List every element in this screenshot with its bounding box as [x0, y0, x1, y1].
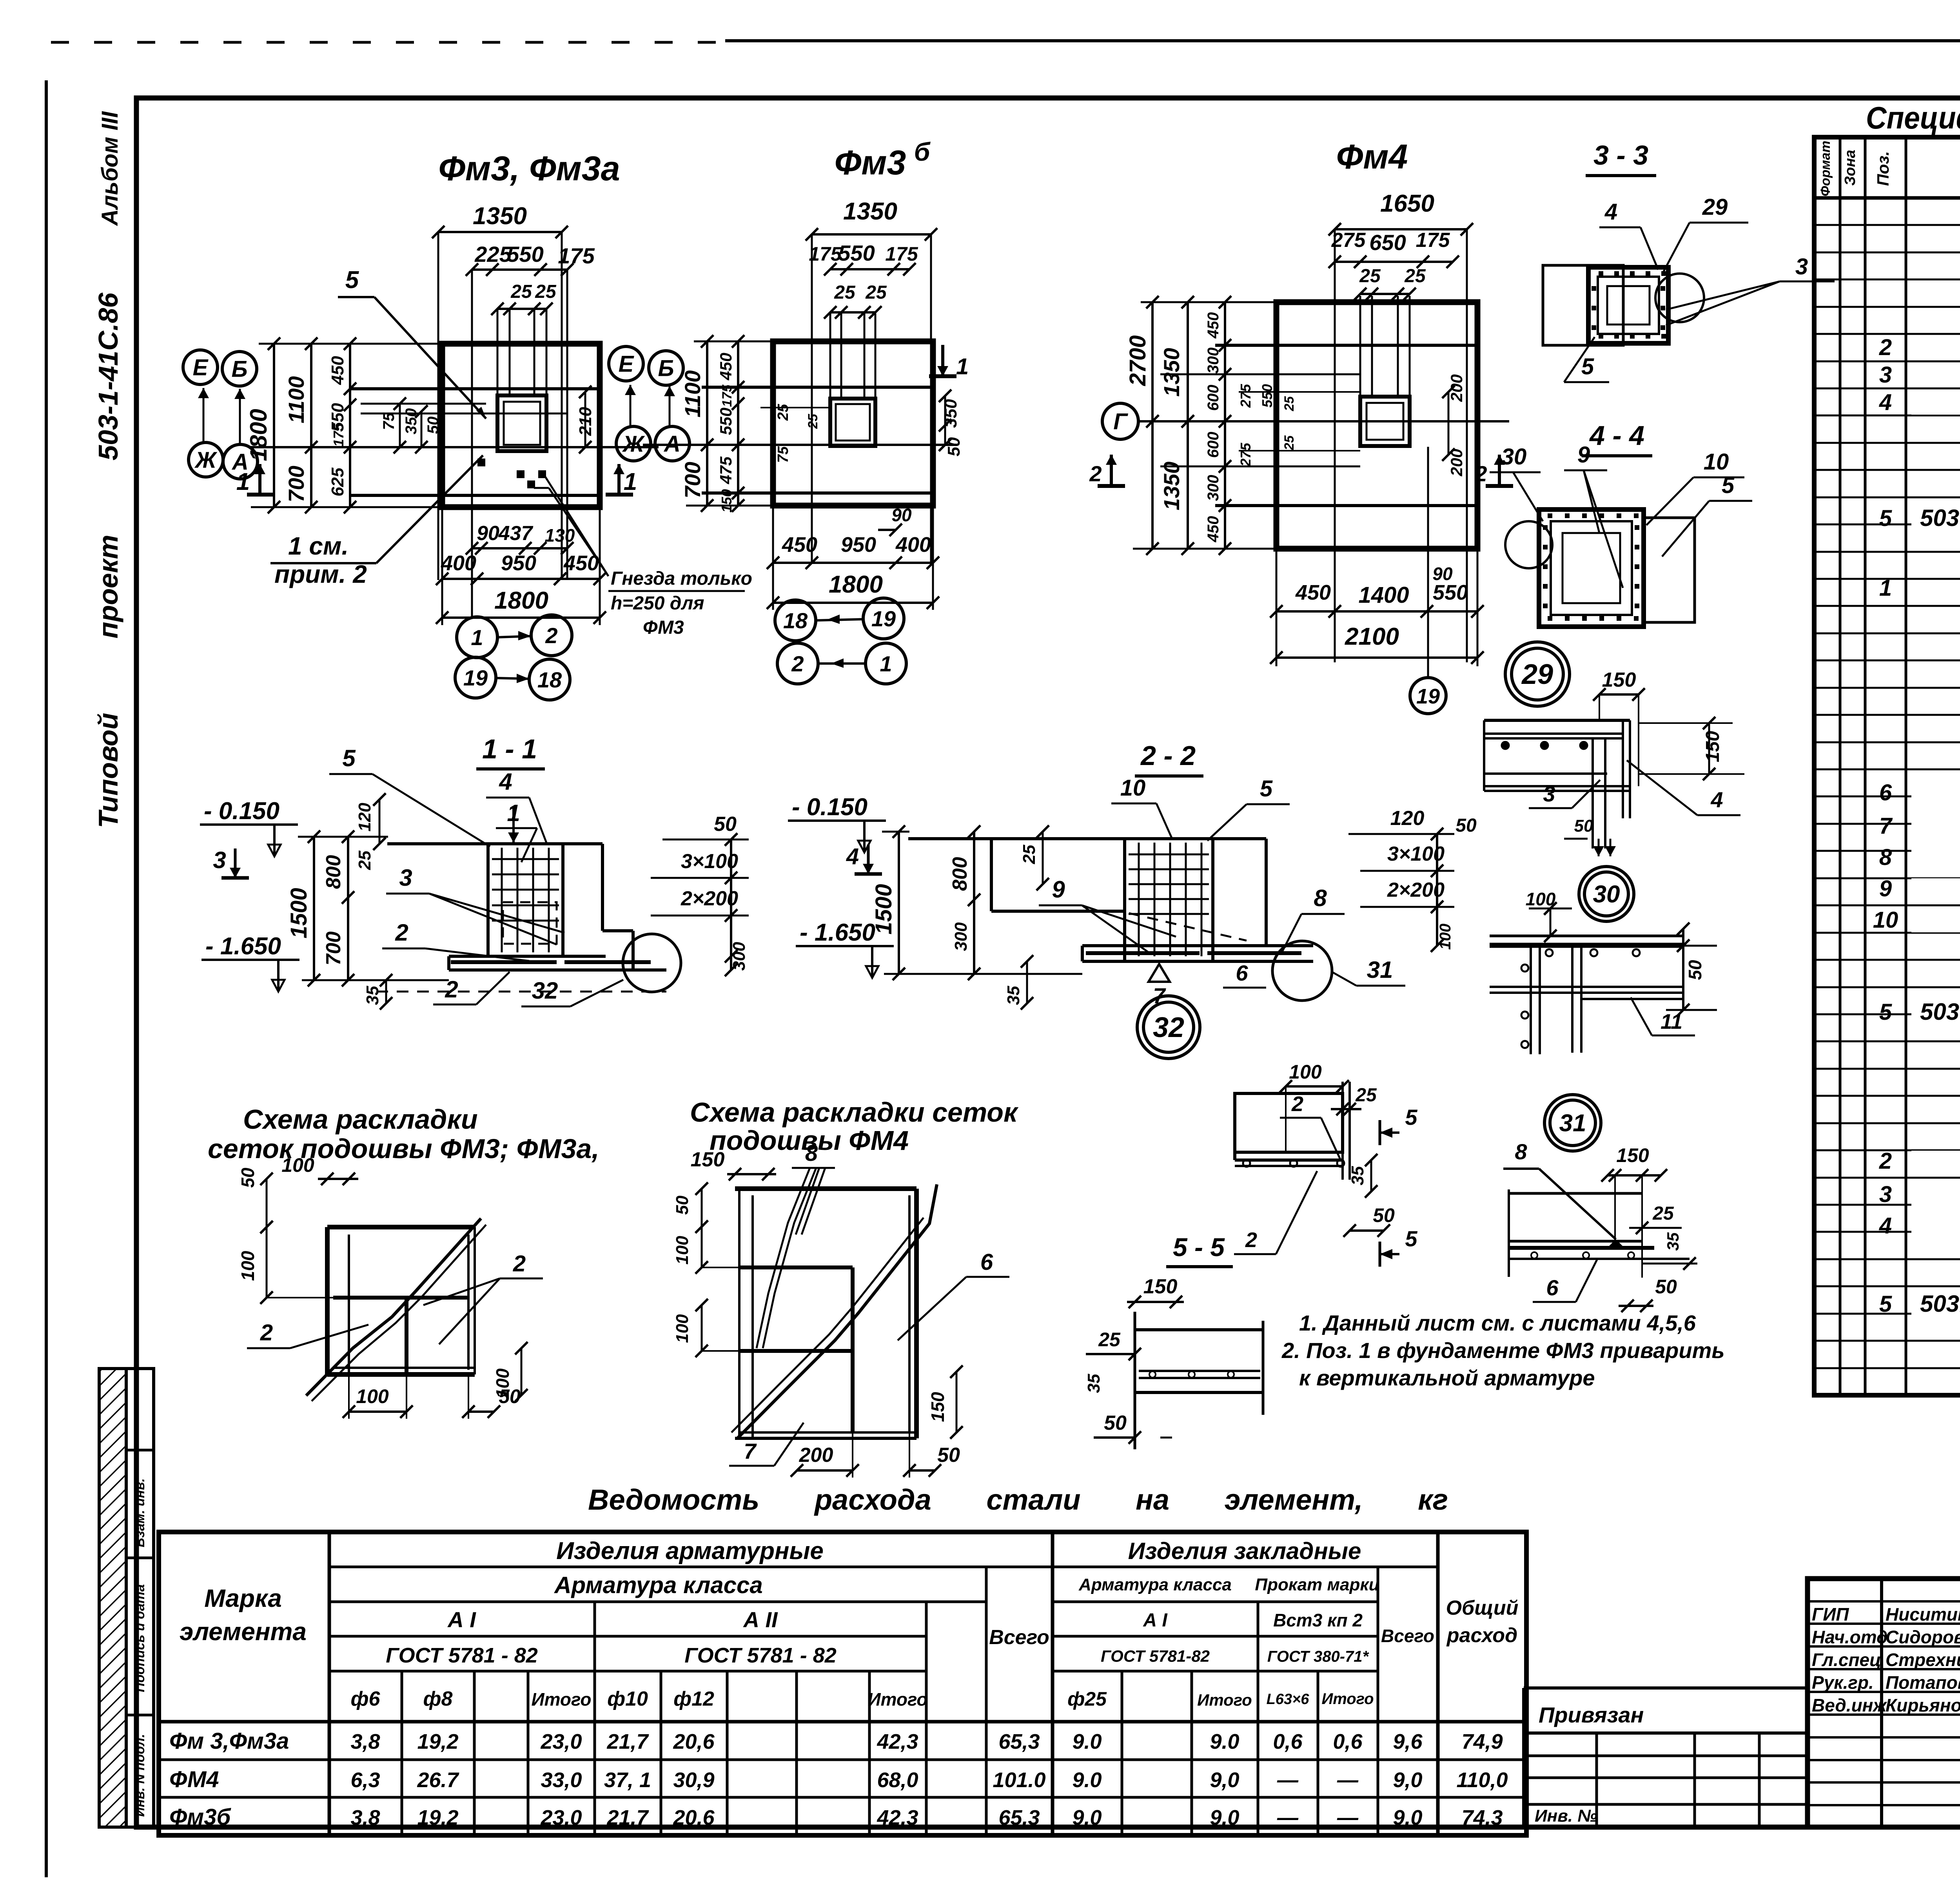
svg-text:1500: 1500: [286, 888, 312, 938]
svg-text:550: 550: [838, 241, 875, 265]
svg-text:1: 1: [624, 468, 637, 495]
svg-text:950: 950: [841, 533, 876, 557]
svg-text:L63×6: L63×6: [1267, 1691, 1310, 1708]
svg-text:Е: Е: [193, 355, 209, 380]
svg-text:25: 25: [1020, 845, 1039, 864]
svg-text:4: 4: [1710, 787, 1723, 812]
svg-text:6: 6: [980, 1249, 993, 1275]
plan FM3 axis line A: [251, 446, 659, 448]
svg-text:Гл.спец: Гл.спец: [1812, 1650, 1881, 1670]
plan FM3 cavity: [497, 395, 546, 451]
svg-text:ф8: ф8: [423, 1688, 453, 1710]
svg-text:ГОСТ 380-71*: ГОСТ 380-71*: [1267, 1648, 1370, 1665]
svg-text:8: 8: [805, 1140, 818, 1166]
svg-text:Ниситин: Ниситин: [1886, 1604, 1960, 1624]
plan FM3 section marks 1: [247, 493, 274, 497]
svg-text:Г: Г: [1113, 409, 1128, 434]
svg-text:5: 5: [342, 745, 356, 771]
svg-text:ГОСТ 5781-82: ГОСТ 5781-82: [1101, 1647, 1210, 1665]
svg-text:8: 8: [1515, 1139, 1527, 1164]
svg-text:30: 30: [1501, 444, 1527, 470]
svg-text:150: 150: [719, 489, 735, 513]
svg-text:- 0.150: - 0.150: [204, 798, 279, 825]
svg-text:150: 150: [1702, 731, 1723, 762]
title block frame: [1808, 1579, 1960, 1827]
detail 32 drawing: [1235, 1093, 1343, 1152]
svg-text:- 1.650: - 1.650: [800, 919, 875, 946]
svg-text:200: 200: [799, 1444, 833, 1467]
svg-text:150: 150: [1616, 1144, 1649, 1166]
plan FM4 axis line G: [1137, 420, 1509, 422]
top dashed trim line: [51, 41, 69, 44]
svg-text:1800: 1800: [829, 571, 883, 598]
svg-text:ф6: ф6: [351, 1688, 381, 1710]
svg-text:100: 100: [356, 1385, 389, 1407]
svg-text:25: 25: [1359, 266, 1381, 286]
svg-text:10: 10: [1704, 449, 1729, 475]
svg-text:Потапова: Потапова: [1886, 1672, 1960, 1693]
svg-text:800: 800: [322, 855, 345, 889]
mesh layout FM4 drawing: [735, 1186, 916, 1191]
small grid below privyazan: [1524, 1755, 1808, 1757]
svg-text:5 - 5: 5 - 5: [1173, 1233, 1225, 1262]
svg-text:19.2: 19.2: [417, 1806, 458, 1829]
svg-text:1800: 1800: [245, 409, 272, 461]
svg-text:Кирьянова: Кирьянова: [1886, 1695, 1960, 1715]
svg-text:625: 625: [328, 468, 347, 497]
svg-text:2: 2: [791, 651, 804, 676]
svg-text:5: 5: [1879, 506, 1892, 531]
svg-text:32: 32: [1153, 1012, 1184, 1043]
svg-text:75: 75: [775, 446, 791, 463]
svg-text:19: 19: [871, 606, 896, 631]
svg-text:26.7: 26.7: [417, 1768, 459, 1792]
svg-text:Общий: Общий: [1446, 1597, 1519, 1619]
svg-text:Подпись и дата: Подпись и дата: [132, 1584, 147, 1692]
svg-text:4: 4: [846, 844, 859, 869]
plan FM3 bottom leader circles: [457, 617, 497, 658]
svg-text:25: 25: [1282, 396, 1297, 412]
svg-text:Фм3б: Фм3б: [169, 1804, 231, 1830]
svg-text:25: 25: [535, 281, 557, 302]
svg-text:503.: 503.: [1920, 1291, 1960, 1317]
svg-text:20,6: 20,6: [673, 1806, 715, 1829]
svg-text:275: 275: [1238, 442, 1254, 467]
section 2-2 body: [908, 837, 1266, 840]
svg-text:30: 30: [1593, 881, 1620, 908]
spec table grid: [1814, 137, 1960, 1395]
svg-text:6: 6: [1546, 1275, 1559, 1300]
svg-text:2: 2: [1291, 1092, 1303, 1116]
svg-text:9: 9: [1577, 442, 1590, 468]
svg-text:600: 600: [1205, 385, 1222, 411]
section 5-5 drawing: [1134, 1312, 1136, 1449]
svg-text:ф25: ф25: [1067, 1688, 1107, 1710]
svg-text:450: 450: [1205, 312, 1222, 339]
svg-text:29: 29: [1702, 194, 1728, 220]
plan FM3 left dims: [273, 344, 275, 507]
sheet trim line left: [45, 80, 48, 1877]
plan FM3 outline: [442, 344, 600, 507]
svg-text:10: 10: [1873, 907, 1898, 933]
svg-text:1. Данный лист см. с листами 4: 1. Данный лист см. с листами 4,5,6: [1299, 1311, 1696, 1335]
svg-text:450: 450: [1205, 516, 1222, 543]
left stamp bar boxes: [126, 1369, 154, 1827]
svg-text:200: 200: [1447, 374, 1466, 402]
svg-text:65,3: 65,3: [998, 1806, 1040, 1829]
svg-text:4: 4: [499, 769, 512, 795]
svg-text:50: 50: [499, 1385, 521, 1407]
svg-text:175: 175: [1416, 229, 1450, 252]
svg-text:120: 120: [1390, 807, 1425, 830]
svg-text:расход: расход: [1446, 1624, 1517, 1647]
svg-text:35: 35: [1348, 1166, 1367, 1185]
svg-text:31: 31: [1559, 1110, 1586, 1137]
svg-text:300: 300: [1205, 348, 1222, 374]
svg-text:50: 50: [937, 1444, 960, 1467]
svg-text:5: 5: [1879, 999, 1892, 1025]
plan FM3b left dims: [706, 341, 708, 506]
svg-text:50: 50: [1574, 816, 1593, 836]
svg-text:ф10: ф10: [607, 1688, 648, 1710]
svg-text:30,9: 30,9: [673, 1768, 714, 1792]
svg-text:31: 31: [1367, 957, 1393, 983]
svg-text:8: 8: [1314, 885, 1327, 911]
svg-text:Фм3: Фм3: [835, 143, 906, 182]
svg-text:74,3: 74,3: [1461, 1806, 1503, 1829]
svg-text:9,6: 9,6: [1393, 1730, 1423, 1753]
plan FM3b leader circles: [775, 600, 816, 641]
svg-text:Итого: Итого: [532, 1689, 592, 1710]
svg-text:Арматура класса: Арматура класса: [1078, 1575, 1232, 1594]
svg-text:ГИП: ГИП: [1812, 1604, 1849, 1624]
svg-text:65,3: 65,3: [998, 1730, 1040, 1753]
svg-text:50: 50: [238, 1168, 258, 1188]
svg-text:1100: 1100: [284, 376, 309, 423]
svg-text:42,3: 42,3: [877, 1730, 918, 1753]
svg-text:37, 1: 37, 1: [604, 1768, 651, 1792]
svg-text:6,3: 6,3: [350, 1768, 380, 1792]
svg-text:175: 175: [885, 243, 918, 265]
svg-text:25: 25: [1282, 435, 1297, 451]
svg-text:—: —: [1277, 1768, 1299, 1792]
svg-text:550: 550: [1433, 581, 1468, 604]
svg-text:20,6: 20,6: [673, 1730, 715, 1753]
svg-text:25: 25: [1404, 266, 1426, 286]
plan FM3b cavity: [830, 399, 875, 446]
svg-text:600: 600: [1205, 432, 1222, 458]
plan FM3 sockets: [477, 459, 485, 466]
svg-text:35: 35: [1664, 1232, 1682, 1251]
svg-text:Б: Б: [231, 356, 247, 382]
svg-text:120: 120: [355, 803, 374, 832]
svg-text:50: 50: [714, 813, 737, 836]
svg-text:Итого: Итого: [1197, 1691, 1252, 1709]
svg-text:1400: 1400: [1358, 582, 1409, 608]
detail 32 bubble: [1137, 996, 1200, 1059]
svg-text:к вертикальной арматуре: к вертикальной арматуре: [1299, 1365, 1595, 1390]
svg-text:100: 100: [673, 1314, 692, 1343]
svg-text:503-: 503-: [1920, 999, 1960, 1025]
svg-text:9: 9: [1052, 876, 1065, 903]
svg-text:1100: 1100: [680, 370, 705, 417]
svg-text:275: 275: [1331, 229, 1366, 252]
svg-text:18: 18: [537, 667, 562, 692]
svg-text:5: 5: [1405, 1105, 1417, 1129]
svg-text:350: 350: [403, 408, 420, 435]
plan FM4 outline: [1276, 302, 1477, 549]
svg-text:68,0: 68,0: [877, 1768, 918, 1792]
svg-text:21,7: 21,7: [606, 1730, 649, 1753]
svg-text:Нач.отд: Нач.отд: [1812, 1627, 1887, 1647]
svg-text:9.0: 9.0: [1210, 1730, 1239, 1753]
detail 31 bubble: [1544, 1095, 1601, 1151]
svg-text:4 - 4: 4 - 4: [1589, 420, 1644, 451]
svg-text:475: 475: [717, 456, 735, 484]
svg-text:3: 3: [1543, 781, 1555, 806]
svg-text:11: 11: [1661, 1010, 1682, 1033]
svg-text:2: 2: [1879, 335, 1892, 360]
svg-text:175: 175: [330, 423, 347, 447]
svg-text:3,8: 3,8: [350, 1730, 380, 1753]
svg-text:Арматура класса: Арматура класса: [554, 1572, 763, 1598]
svg-text:ГОСТ 5781 - 82: ГОСТ 5781 - 82: [386, 1644, 538, 1667]
detail 29 post bottom: [1592, 818, 1594, 848]
svg-text:7: 7: [1879, 813, 1893, 839]
svg-text:35: 35: [1084, 1374, 1103, 1393]
svg-text:Инв. №: Инв. №: [1535, 1806, 1597, 1826]
svg-text:7: 7: [744, 1439, 757, 1463]
svg-text:21,7: 21,7: [606, 1806, 649, 1829]
section 4-4 drawing: [1539, 509, 1644, 627]
svg-text:1800: 1800: [494, 587, 548, 614]
svg-text:3: 3: [213, 847, 226, 873]
svg-text:9,0: 9,0: [1393, 1806, 1422, 1829]
svg-text:Итого: Итого: [868, 1689, 928, 1710]
svg-text:- 0.150: - 0.150: [792, 794, 867, 821]
svg-text:Гнезда только: Гнезда только: [611, 568, 752, 589]
svg-text:100: 100: [1437, 924, 1454, 950]
svg-text:90: 90: [1432, 564, 1453, 584]
svg-text:450: 450: [717, 353, 735, 381]
svg-text:550: 550: [1259, 384, 1275, 408]
svg-text:25: 25: [510, 281, 532, 302]
svg-text:800: 800: [949, 857, 971, 891]
svg-text:100: 100: [238, 1251, 258, 1281]
svg-text:Зона: Зона: [1842, 150, 1858, 186]
svg-text:ФМ4: ФМ4: [169, 1767, 219, 1792]
svg-text:1: 1: [1879, 575, 1892, 601]
svg-text:150: 150: [927, 1392, 948, 1422]
svg-text:Изделия закладные: Изделия закладные: [1128, 1538, 1361, 1564]
svg-text:0,6: 0,6: [1273, 1730, 1303, 1753]
svg-text:Марка: Марка: [204, 1584, 282, 1612]
svg-text:1350: 1350: [1159, 462, 1184, 511]
svg-text:1350: 1350: [1159, 348, 1184, 397]
svg-text:2×200: 2×200: [681, 887, 738, 910]
privyazan cell: [1524, 1686, 1808, 1690]
svg-text:503-: 503-: [1920, 505, 1960, 531]
svg-text:5: 5: [1405, 1226, 1417, 1251]
svg-text:25: 25: [865, 282, 887, 303]
svg-text:1: 1: [471, 625, 483, 650]
svg-text:Всего: Всего: [989, 1626, 1049, 1649]
svg-text:сеток подошвы ФМ3; ФМ3а,: сеток подошвы ФМ3; ФМ3а,: [208, 1133, 599, 1164]
svg-text:550: 550: [717, 408, 735, 435]
svg-text:Б: Б: [658, 355, 674, 381]
svg-text:50: 50: [944, 437, 964, 456]
svg-text:100: 100: [673, 1236, 692, 1265]
svg-text:2100: 2100: [1345, 623, 1399, 650]
svg-text:25: 25: [1098, 1329, 1121, 1351]
section 2-2 dims left: [898, 832, 900, 974]
svg-text:2: 2: [260, 1320, 273, 1345]
svg-text:9,0: 9,0: [1210, 1768, 1239, 1792]
plan FM4 left dims: [1151, 302, 1154, 549]
svg-text:Прокат марки: Прокат марки: [1255, 1575, 1379, 1594]
svg-text:1: 1: [956, 354, 969, 379]
svg-text:ф12: ф12: [673, 1688, 714, 1710]
svg-text:50: 50: [1104, 1412, 1127, 1434]
svg-text:А I: А I: [447, 1607, 476, 1632]
svg-text:1650: 1650: [1380, 190, 1434, 217]
svg-text:1 - 1: 1 - 1: [482, 734, 537, 764]
svg-text:3 - 3: 3 - 3: [1593, 140, 1648, 170]
svg-text:33,0: 33,0: [541, 1768, 582, 1792]
svg-text:175: 175: [809, 243, 842, 265]
svg-text:h=250 для: h=250 для: [611, 593, 704, 614]
svg-text:1: 1: [236, 468, 250, 495]
svg-text:35: 35: [363, 986, 382, 1005]
svg-text:—: —: [1277, 1806, 1299, 1829]
svg-text:19: 19: [463, 665, 488, 690]
svg-text:25: 25: [355, 850, 374, 870]
svg-text:300: 300: [951, 922, 971, 951]
svg-text:—: —: [1337, 1768, 1359, 1792]
svg-text:25: 25: [1652, 1203, 1674, 1224]
detail 30 bubble: [1579, 867, 1634, 921]
svg-text:3×100: 3×100: [681, 850, 738, 873]
plan FM3b axis circles: [609, 346, 643, 381]
svg-text:2: 2: [1089, 461, 1102, 486]
plan FM4 step lines: [1215, 344, 1477, 347]
svg-text:0,6: 0,6: [1333, 1730, 1363, 1753]
detail 29 bubble: [1505, 642, 1570, 706]
svg-text:Всего: Всего: [1381, 1626, 1434, 1646]
svg-text:Сидорова: Сидорова: [1886, 1627, 1960, 1647]
plan FM4 cavity: [1360, 397, 1410, 446]
plan FM4 circle 19: [1410, 678, 1446, 714]
svg-text:Поз.: Поз.: [1874, 151, 1892, 186]
svg-text:650: 650: [1369, 230, 1406, 255]
svg-text:6: 6: [1879, 780, 1892, 805]
section 1-1 body: [387, 842, 603, 845]
svg-text:25: 25: [806, 413, 820, 429]
svg-text:1 см.: 1 см.: [288, 532, 348, 560]
section 1-1 dims left: [313, 837, 315, 980]
section 3-3 drawing: [1543, 265, 1623, 345]
plan FM4 axis circle G: [1102, 403, 1138, 439]
svg-text:550: 550: [507, 242, 543, 267]
svg-text:225: 225: [474, 242, 512, 267]
svg-text:8: 8: [1879, 845, 1892, 870]
svg-text:9,0: 9,0: [1072, 1806, 1102, 1829]
svg-text:50: 50: [1455, 815, 1477, 836]
detail 30 drawing: [1490, 935, 1682, 937]
svg-text:А II: А II: [742, 1607, 778, 1632]
svg-text:Ведомость расхода стали на эле: Ведомость расхода стали на элемент, кг: [588, 1483, 1448, 1516]
svg-text:4: 4: [1879, 1213, 1892, 1238]
mesh layout FM3 drawing: [327, 1225, 475, 1229]
svg-text:9,0: 9,0: [1210, 1806, 1239, 1829]
svg-text:100: 100: [1289, 1061, 1322, 1083]
svg-text:2: 2: [445, 976, 458, 1003]
svg-text:3: 3: [1879, 362, 1892, 388]
svg-text:Вед.инж: Вед.инж: [1812, 1695, 1887, 1715]
plan FM3 axis circles left: [183, 350, 218, 384]
svg-text:Рук.гр.: Рук.гр.: [1812, 1672, 1874, 1693]
svg-text:10: 10: [1120, 775, 1146, 801]
plan FM3b outline: [773, 341, 933, 506]
svg-text:700: 700: [322, 932, 345, 966]
svg-text:Ж: Ж: [622, 431, 645, 457]
svg-text:175: 175: [558, 243, 595, 268]
detail 29 drawing: [1484, 719, 1630, 722]
svg-text:2: 2: [395, 919, 408, 946]
svg-text:Альбом III: Альбом III: [97, 111, 123, 227]
svg-text:50: 50: [1685, 960, 1705, 980]
plan FM3b step lines: [702, 386, 933, 389]
plan FM3b right dims: [944, 396, 946, 445]
svg-text:35: 35: [1004, 986, 1023, 1005]
svg-text:275: 275: [1238, 384, 1254, 408]
svg-text:6: 6: [1236, 961, 1248, 985]
svg-text:90: 90: [477, 522, 499, 545]
svg-text:Вст3 кп 2: Вст3 кп 2: [1273, 1610, 1363, 1630]
svg-text:400: 400: [441, 551, 476, 575]
svg-text:3: 3: [1795, 254, 1808, 279]
plan FM4 section marks 2: [1098, 484, 1125, 488]
plan FM3 step lines: [350, 387, 600, 390]
svg-text:9: 9: [1879, 876, 1892, 901]
svg-text:Фм 3,Фм3а: Фм 3,Фм3а: [169, 1728, 289, 1754]
svg-text:3,8: 3,8: [350, 1806, 380, 1829]
svg-text:150: 150: [691, 1148, 725, 1171]
svg-text:2: 2: [1245, 1228, 1257, 1252]
svg-text:23,0: 23,0: [540, 1806, 582, 1829]
svg-text:5: 5: [1581, 354, 1594, 379]
svg-text:19,2: 19,2: [417, 1730, 458, 1753]
svg-text:—: —: [1337, 1806, 1359, 1829]
svg-text:2700: 2700: [1125, 335, 1151, 386]
svg-text:б: б: [914, 137, 931, 166]
svg-text:3: 3: [1879, 1182, 1892, 1207]
svg-text:130: 130: [545, 525, 575, 546]
svg-text:700: 700: [284, 466, 309, 502]
steel table grid: [159, 1532, 1526, 1835]
svg-text:элемента: элемента: [180, 1617, 307, 1646]
svg-text:4: 4: [1879, 390, 1892, 415]
svg-text:Типовой проект 503-1-41С.86: Типовой проект 503-1-41С.86: [93, 292, 123, 828]
svg-text:Инв. N подл.: Инв. N подл.: [132, 1734, 147, 1817]
svg-text:Изделия арматурные: Изделия арматурные: [556, 1537, 824, 1565]
svg-text:Схема раскладки сеток: Схема раскладки сеток: [690, 1097, 1019, 1128]
svg-text:29: 29: [1521, 659, 1553, 690]
svg-text:150: 150: [1602, 669, 1636, 691]
svg-text:ФМ3: ФМ3: [643, 617, 684, 638]
svg-text:Схема раскладки: Схема раскладки: [243, 1104, 478, 1135]
svg-text:19: 19: [1416, 685, 1440, 708]
